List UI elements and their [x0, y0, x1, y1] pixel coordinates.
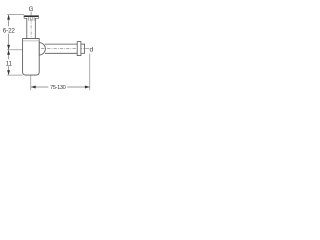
outlet centerline (dash-dot): [41, 48, 84, 50]
outlet ring flange: [77, 42, 81, 56]
thread hatch ticks in flange: [27, 17, 29, 21]
arrow right at right extension: [85, 86, 90, 89]
bottom dimension line right segment: [67, 86, 89, 88]
svg-text:6-22: 6-22: [3, 28, 16, 35]
left dimension line 11 lower segment: [8, 66, 10, 75]
arrow left at center extension: [31, 86, 36, 89]
inlet centerline (dash-dot): [30, 19, 32, 38]
pipe end stub: [81, 43, 85, 45]
bottom dimension line left segment: [31, 86, 48, 88]
body collar step line: [23, 40, 40, 42]
right extension line below d: [89, 54, 91, 91]
arrow up at top: [7, 15, 10, 20]
leader to d: [85, 48, 89, 50]
left dimension line 6-22 lower segment: [8, 34, 10, 50]
outlet pipe top wall: [45, 43, 77, 45]
svg-text:11: 11: [6, 60, 13, 67]
outlet pipe bottom wall: [45, 52, 77, 54]
trap body: [23, 39, 40, 76]
flange right side: [38, 15, 40, 18]
left dimension line 6-22 upper segment: [8, 15, 10, 26]
flange left side: [23, 15, 25, 18]
leader from G to flange: [30, 12, 32, 16]
svg-text:75-130: 75-130: [50, 85, 66, 91]
arrow up below middle (start of 11): [7, 50, 10, 55]
pipe end cap: [84, 44, 86, 54]
arrow down at bottom (end of 11): [7, 70, 10, 75]
extension line top (flange level): [7, 14, 24, 16]
background: [0, 0, 100, 100]
outlet junction nut (round bulge): [39, 43, 45, 55]
svg-text:d: d: [90, 46, 94, 53]
inlet pipe left wall: [26, 18, 28, 38]
left dimension line 11 upper segment: [8, 50, 10, 59]
flange bottom ledge left: [24, 17, 27, 19]
inlet flange top bar: [24, 15, 39, 17]
extension line bottom (body bottom level): [7, 74, 22, 76]
arrow down at middle (end of 6-22): [7, 45, 10, 50]
extension line middle (outlet level): [7, 49, 22, 51]
flange bottom ledge right: [35, 17, 38, 19]
inlet pipe right wall: [34, 18, 36, 38]
center extension line below body: [30, 75, 32, 90]
